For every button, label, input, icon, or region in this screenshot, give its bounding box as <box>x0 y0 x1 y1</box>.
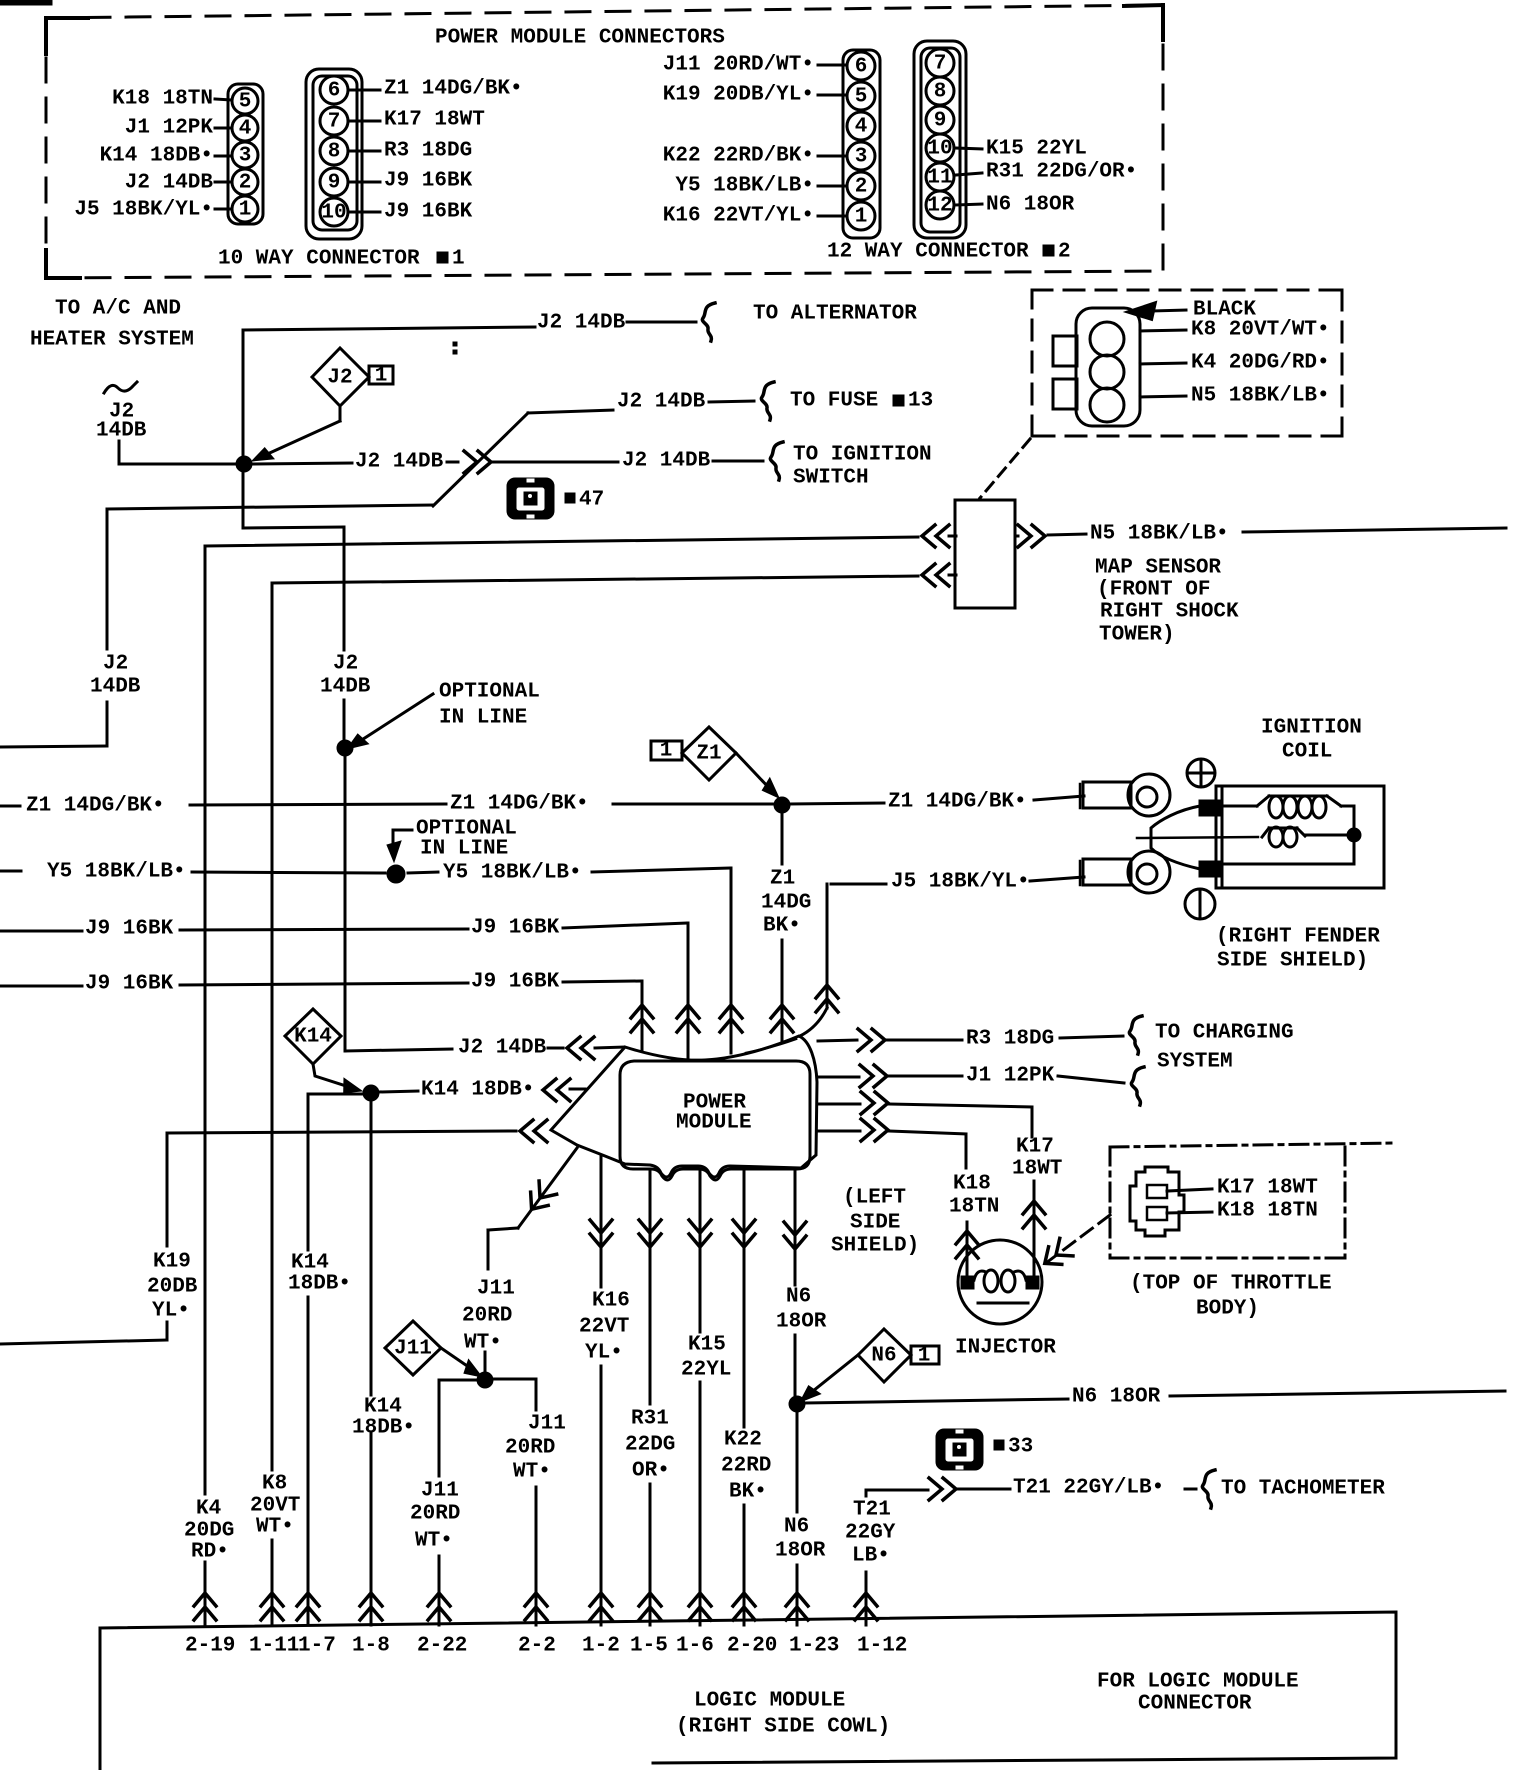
svg-text:BODY): BODY) <box>1196 1298 1259 1321</box>
svg-text:BK•: BK• <box>729 1481 767 1504</box>
svg-text:18TN: 18TN <box>949 1196 999 1219</box>
svg-text:18OR: 18OR <box>775 1540 826 1563</box>
svg-text:1: 1 <box>855 206 868 229</box>
svg-text:10: 10 <box>321 202 346 225</box>
svg-text:7: 7 <box>328 111 341 134</box>
svg-text:33: 33 <box>1008 1436 1033 1459</box>
svg-text:3: 3 <box>239 145 252 168</box>
svg-text:11: 11 <box>927 167 952 190</box>
svg-text:K18 18TN: K18 18TN <box>1217 1200 1318 1223</box>
svg-text:J11: J11 <box>421 1480 459 1503</box>
svg-text:N5 18BK/LB•: N5 18BK/LB• <box>1191 385 1330 408</box>
svg-text:20VT: 20VT <box>250 1495 300 1518</box>
svg-text:1-11: 1-11 <box>249 1635 299 1658</box>
svg-text:14DB: 14DB <box>320 676 371 699</box>
svg-text:14DG: 14DG <box>761 892 811 915</box>
svg-text:K22: K22 <box>724 1429 762 1452</box>
svg-text:BK•: BK• <box>763 915 801 938</box>
svg-text:K18 18TN: K18 18TN <box>112 88 213 111</box>
svg-text:Z1 14DG/BK•: Z1 14DG/BK• <box>450 793 589 816</box>
svg-text:Y5 18BK/LB•: Y5 18BK/LB• <box>47 861 186 884</box>
svg-text:IN LINE: IN LINE <box>439 707 527 730</box>
svg-text:N6: N6 <box>784 1516 809 1539</box>
svg-text:4: 4 <box>855 116 868 139</box>
svg-text:Y5 18BK/LB•: Y5 18BK/LB• <box>675 175 814 198</box>
svg-text:J11: J11 <box>477 1278 515 1301</box>
svg-text:J2 14DB: J2 14DB <box>458 1037 547 1060</box>
svg-text:22VT: 22VT <box>579 1316 629 1339</box>
svg-text:20RD: 20RD <box>410 1503 460 1526</box>
svg-text:J9 16BK: J9 16BK <box>384 170 473 193</box>
svg-text:22GY: 22GY <box>845 1522 896 1545</box>
svg-text:LB•: LB• <box>852 1545 890 1568</box>
svg-text:K17 18WT: K17 18WT <box>1217 1177 1318 1200</box>
svg-text:K14: K14 <box>364 1396 402 1419</box>
svg-text:K18: K18 <box>953 1173 991 1196</box>
svg-text:K22 22RD/BK•: K22 22RD/BK• <box>663 145 814 168</box>
svg-text:K15 22YL: K15 22YL <box>986 138 1087 161</box>
svg-text:1-6: 1-6 <box>676 1635 714 1658</box>
svg-text:LOGIC MODULE: LOGIC MODULE <box>694 1690 845 1713</box>
svg-text:9: 9 <box>934 110 947 133</box>
svg-text:COIL: COIL <box>1282 741 1332 764</box>
svg-text:J2 14DB: J2 14DB <box>617 391 706 414</box>
svg-text:2: 2 <box>855 176 868 199</box>
svg-text:2-19: 2-19 <box>185 1635 235 1658</box>
svg-text:R31: R31 <box>631 1408 669 1431</box>
svg-text:(TOP OF THROTTLE: (TOP OF THROTTLE <box>1130 1273 1332 1296</box>
svg-text:13: 13 <box>908 390 933 413</box>
svg-text:6: 6 <box>328 80 341 103</box>
svg-text:J2: J2 <box>333 653 358 676</box>
svg-text:K17: K17 <box>1016 1136 1054 1159</box>
svg-text:2-22: 2-22 <box>417 1635 467 1658</box>
svg-text:5: 5 <box>855 86 868 109</box>
svg-text:1-5: 1-5 <box>630 1635 668 1658</box>
svg-text:N5 18BK/LB•: N5 18BK/LB• <box>1090 523 1229 546</box>
svg-text:TO ALTERNATOR: TO ALTERNATOR <box>753 303 917 326</box>
svg-text:IGNITION: IGNITION <box>1261 717 1362 740</box>
svg-text:FOR LOGIC MODULE: FOR LOGIC MODULE <box>1097 1671 1299 1694</box>
svg-text:12 WAY CONNECTOR: 12 WAY CONNECTOR <box>827 241 1029 264</box>
svg-text:10 WAY CONNECTOR: 10 WAY CONNECTOR <box>218 248 420 271</box>
svg-text:K16 22VT/YL•: K16 22VT/YL• <box>663 205 814 228</box>
svg-text:1-12: 1-12 <box>857 1635 907 1658</box>
svg-text:N6: N6 <box>786 1286 811 1309</box>
svg-text:22RD: 22RD <box>721 1455 771 1478</box>
svg-text:8: 8 <box>328 141 341 164</box>
svg-text:WT•: WT• <box>415 1530 453 1553</box>
svg-text:J2 14DB: J2 14DB <box>537 312 626 335</box>
svg-text:K16: K16 <box>592 1290 630 1313</box>
svg-text:J2 14DB: J2 14DB <box>125 172 214 195</box>
svg-text:K15: K15 <box>688 1334 726 1357</box>
svg-text:6: 6 <box>855 56 868 79</box>
svg-text:SYSTEM: SYSTEM <box>1157 1051 1233 1074</box>
svg-text:MAP SENSOR: MAP SENSOR <box>1095 557 1221 580</box>
svg-text:Z1 14DG/BK•: Z1 14DG/BK• <box>888 791 1027 814</box>
svg-text:20RD: 20RD <box>505 1437 555 1460</box>
svg-text:INJECTOR: INJECTOR <box>955 1337 1056 1360</box>
svg-text:K8: K8 <box>262 1473 287 1496</box>
svg-text:20DG: 20DG <box>184 1520 234 1543</box>
svg-text:K14: K14 <box>294 1026 332 1049</box>
svg-text:20DB: 20DB <box>147 1276 198 1299</box>
svg-text:R3 18DG: R3 18DG <box>384 140 472 163</box>
svg-text:R3 18DG: R3 18DG <box>966 1028 1054 1051</box>
svg-text:T21 22GY/LB•: T21 22GY/LB• <box>1013 1477 1164 1500</box>
svg-text:20RD: 20RD <box>462 1305 512 1328</box>
svg-text:YL•: YL• <box>152 1300 190 1323</box>
svg-text:POWER MODULE CONNECTORS: POWER MODULE CONNECTORS <box>435 27 725 50</box>
svg-text:TO FUSE: TO FUSE <box>790 390 878 413</box>
svg-text:J9 16BK: J9 16BK <box>471 917 560 940</box>
svg-text:TO A/C AND: TO A/C AND <box>55 298 181 321</box>
svg-text:Z1: Z1 <box>770 868 795 891</box>
svg-text:1: 1 <box>239 199 252 222</box>
svg-text:10: 10 <box>927 138 952 161</box>
svg-text:J2 14DB: J2 14DB <box>622 450 711 473</box>
svg-text:J2: J2 <box>327 367 352 390</box>
svg-text:HEATER SYSTEM: HEATER SYSTEM <box>30 329 194 352</box>
svg-text:4: 4 <box>239 118 252 141</box>
svg-text:K14: K14 <box>291 1252 329 1275</box>
svg-text:J9 16BK: J9 16BK <box>471 971 560 994</box>
svg-text:K19: K19 <box>153 1251 191 1274</box>
svg-text:TO IGNITION: TO IGNITION <box>793 444 932 467</box>
svg-text:RIGHT SHOCK: RIGHT SHOCK <box>1100 601 1239 624</box>
svg-text:(RIGHT FENDER: (RIGHT FENDER <box>1216 926 1380 949</box>
svg-text:SHIELD): SHIELD) <box>831 1235 919 1258</box>
svg-text:K14 18DB•: K14 18DB• <box>421 1079 534 1102</box>
svg-text:9: 9 <box>328 172 341 195</box>
svg-text:2: 2 <box>1058 241 1071 264</box>
svg-text:TO CHARGING: TO CHARGING <box>1155 1022 1294 1045</box>
svg-text:SIDE SHIELD): SIDE SHIELD) <box>1217 950 1368 973</box>
svg-text:N6 18OR: N6 18OR <box>1072 1386 1161 1409</box>
svg-text:(FRONT OF: (FRONT OF <box>1097 579 1210 602</box>
svg-text:SWITCH: SWITCH <box>793 467 869 490</box>
svg-text:TOWER): TOWER) <box>1099 624 1175 647</box>
svg-text:18WT: 18WT <box>1012 1158 1062 1181</box>
svg-text:2-20: 2-20 <box>727 1635 777 1658</box>
svg-text:1: 1 <box>375 365 388 388</box>
svg-text:J5 18BK/YL•: J5 18BK/YL• <box>74 199 213 222</box>
svg-text:14DB: 14DB <box>90 676 141 699</box>
svg-text:IN LINE: IN LINE <box>420 838 508 861</box>
svg-text:J2: J2 <box>103 653 128 676</box>
svg-text:(RIGHT SIDE COWL): (RIGHT SIDE COWL) <box>676 1716 890 1739</box>
svg-text:K19 20DB/YL•: K19 20DB/YL• <box>663 84 814 107</box>
svg-text:1: 1 <box>452 248 465 271</box>
svg-text:K14 18DB•: K14 18DB• <box>100 145 213 168</box>
svg-text:N6 18OR: N6 18OR <box>986 194 1075 217</box>
svg-text:N6: N6 <box>871 1345 896 1368</box>
svg-text:8: 8 <box>934 81 947 104</box>
svg-text:CONNECTOR: CONNECTOR <box>1138 1693 1252 1716</box>
svg-text:2: 2 <box>239 172 252 195</box>
svg-text:RD•: RD• <box>191 1541 229 1564</box>
svg-text:(LEFT: (LEFT <box>843 1187 906 1210</box>
svg-text:J9 16BK: J9 16BK <box>85 918 174 941</box>
svg-text:2-2: 2-2 <box>518 1635 556 1658</box>
svg-text:Y5 18BK/LB•: Y5 18BK/LB• <box>443 862 582 885</box>
svg-text:1-2: 1-2 <box>582 1635 620 1658</box>
svg-text:14DB: 14DB <box>96 420 147 443</box>
svg-text:1-23: 1-23 <box>789 1635 839 1658</box>
svg-text:18DB•: 18DB• <box>352 1417 415 1440</box>
svg-text:K17 18WT: K17 18WT <box>384 109 485 132</box>
svg-text:3: 3 <box>855 146 868 169</box>
svg-text:T21: T21 <box>853 1499 891 1522</box>
svg-text:5: 5 <box>239 91 252 114</box>
svg-text:Z1 14DG/BK•: Z1 14DG/BK• <box>26 795 165 818</box>
svg-text:22YL: 22YL <box>681 1359 731 1382</box>
svg-text:1-8: 1-8 <box>352 1635 390 1658</box>
svg-text:J5 18BK/YL•: J5 18BK/YL• <box>891 871 1030 894</box>
svg-text:OR•: OR• <box>632 1460 670 1483</box>
svg-text:Z1 14DG/BK•: Z1 14DG/BK• <box>384 78 523 101</box>
svg-text:K4: K4 <box>196 1498 221 1521</box>
svg-text:J1 12PK: J1 12PK <box>966 1065 1055 1088</box>
svg-text:J11: J11 <box>394 1338 432 1361</box>
svg-text:WT•: WT• <box>464 1332 502 1355</box>
svg-text:18OR: 18OR <box>776 1311 827 1334</box>
svg-text:WT•: WT• <box>513 1461 551 1484</box>
svg-text:SIDE: SIDE <box>850 1212 900 1235</box>
svg-text:J11: J11 <box>528 1413 566 1436</box>
svg-text:J2 14DB: J2 14DB <box>355 451 444 474</box>
svg-text:J11 20RD/WT•: J11 20RD/WT• <box>663 54 814 77</box>
svg-text:K8 20VT/WT•: K8 20VT/WT• <box>1191 319 1330 342</box>
svg-text:22DG: 22DG <box>625 1434 675 1457</box>
svg-text:J1 12PK: J1 12PK <box>125 117 214 140</box>
svg-text:7: 7 <box>934 53 947 76</box>
svg-text:1: 1 <box>918 1345 931 1368</box>
svg-text:K4 20DG/RD•: K4 20DG/RD• <box>1191 352 1330 375</box>
svg-text:Z1: Z1 <box>696 743 721 766</box>
svg-text:MODULE: MODULE <box>676 1112 752 1135</box>
svg-text:47: 47 <box>579 489 604 512</box>
svg-text:WT•: WT• <box>256 1516 294 1539</box>
svg-text:J9 16BK: J9 16BK <box>384 201 473 224</box>
svg-text:R31 22DG/OR•: R31 22DG/OR• <box>986 161 1137 184</box>
svg-text:18DB•: 18DB• <box>288 1273 351 1296</box>
svg-text:1-7: 1-7 <box>298 1635 336 1658</box>
svg-text:TO TACHOMETER: TO TACHOMETER <box>1221 1478 1385 1501</box>
svg-text:12: 12 <box>927 195 952 218</box>
svg-text:1: 1 <box>660 740 673 763</box>
svg-text:YL•: YL• <box>585 1342 623 1365</box>
svg-text:OPTIONAL: OPTIONAL <box>439 681 540 704</box>
svg-text:J9 16BK: J9 16BK <box>85 973 174 996</box>
